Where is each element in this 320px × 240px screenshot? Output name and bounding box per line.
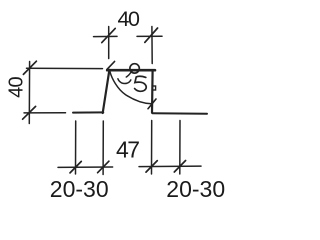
bottom tick 4 <box>174 161 185 173</box>
svg-text:20-30: 20-30 <box>166 176 225 202</box>
angle dimension arc <box>110 72 152 104</box>
top dimension line left segment <box>94 35 118 37</box>
bottom tick 3 <box>146 161 157 173</box>
handwritten 5 glyph <box>135 76 147 91</box>
bottom dimension line left <box>58 166 113 168</box>
rib left web <box>103 70 110 113</box>
left extension line top <box>27 67 103 69</box>
svg-text:40: 40 <box>6 77 28 98</box>
bottom extension line 3 <box>151 121 153 175</box>
handwritten smile stroke <box>118 79 131 84</box>
rib base surface right <box>153 112 208 115</box>
bottom dimension line right <box>139 165 201 168</box>
ring tail stroke <box>126 72 131 77</box>
top dimension tick left <box>102 28 115 42</box>
bottom extension line 2 <box>102 121 104 175</box>
bottom extension line 4 <box>179 121 181 175</box>
rib top edge <box>107 69 155 72</box>
rib base surface left <box>73 111 103 113</box>
svg-text:40: 40 <box>118 7 140 31</box>
top dimension line right segment <box>137 35 162 37</box>
small square mark on right web <box>152 86 155 90</box>
handwritten ring mark <box>130 64 139 73</box>
top extension line left <box>108 27 110 59</box>
angle arc start tick <box>107 61 115 69</box>
rib right web <box>151 71 154 113</box>
svg-text:47: 47 <box>116 137 139 163</box>
left extension line bottom <box>24 112 66 114</box>
top dimension tick right <box>145 28 158 42</box>
angle arc end tick <box>148 99 156 109</box>
top extension line right <box>151 27 153 64</box>
left dimension line <box>28 62 30 124</box>
svg-text:20-30: 20-30 <box>50 176 109 202</box>
bottom tick 2 <box>98 161 109 173</box>
bottom extension line 1 <box>75 121 77 174</box>
left dimension tick bottom <box>23 106 36 119</box>
bottom tick 1 <box>70 161 81 173</box>
left dimension tick top <box>23 61 36 74</box>
